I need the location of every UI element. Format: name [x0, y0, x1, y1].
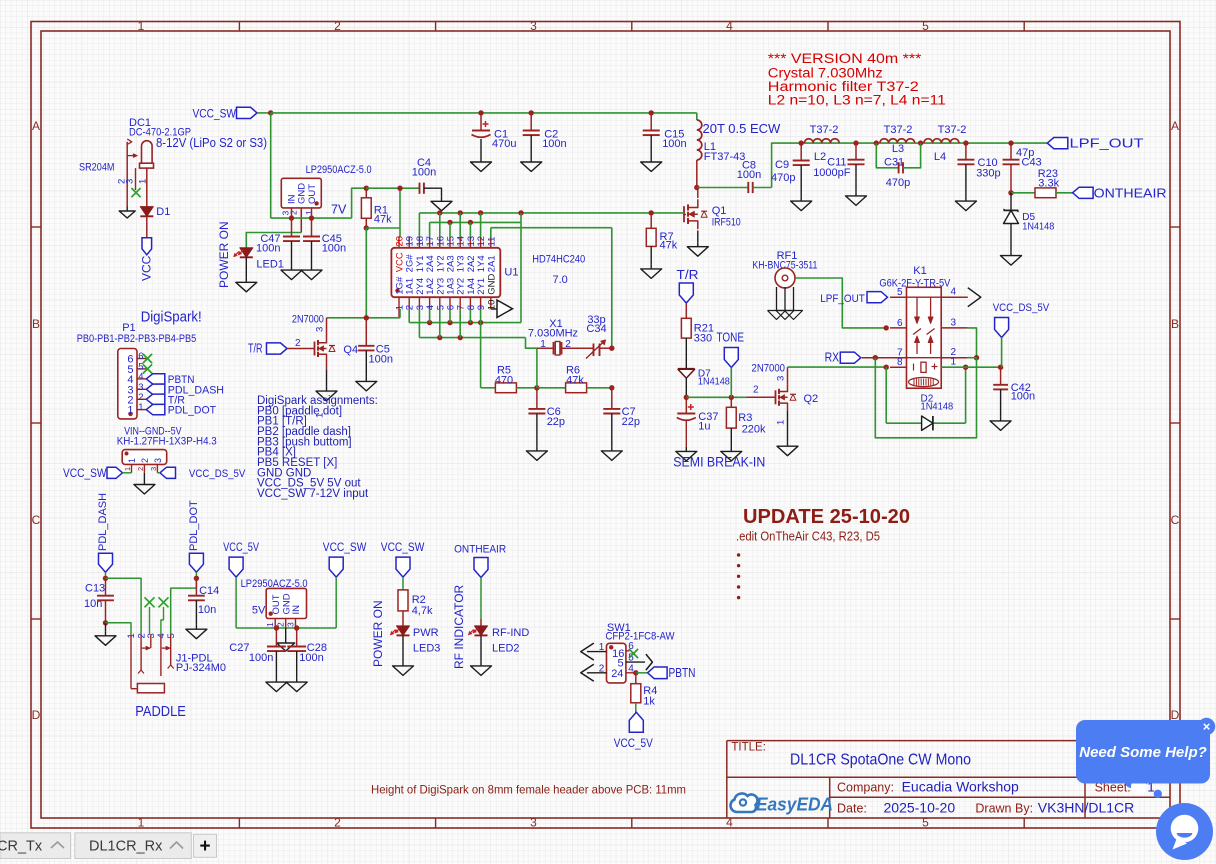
svg-text:1: 1 — [265, 622, 275, 627]
svg-text:RF INDICATOR: RF INDICATOR — [452, 584, 466, 669]
svg-text:100n: 100n — [737, 169, 761, 181]
svg-text:L4: L4 — [934, 151, 946, 163]
svg-text:Date:: Date: — [837, 802, 867, 816]
svg-text:K1: K1 — [913, 265, 926, 277]
svg-text:47k: 47k — [374, 213, 392, 225]
svg-text:2: 2 — [334, 19, 341, 33]
svg-text:6: 6 — [138, 351, 143, 362]
svg-text:LPF_OUT: LPF_OUT — [820, 293, 865, 305]
svg-text:EasyEDA: EasyEDA — [756, 794, 833, 815]
svg-text:1k: 1k — [643, 696, 655, 708]
svg-text:T37-2: T37-2 — [884, 124, 913, 136]
svg-text:DL1CR SpotaOne CW Mono: DL1CR SpotaOne CW Mono — [790, 752, 971, 769]
svg-text:2: 2 — [565, 339, 571, 350]
svg-text:PADDLE: PADDLE — [135, 704, 186, 720]
svg-text:7.0: 7.0 — [553, 274, 568, 286]
svg-text:C31: C31 — [884, 157, 904, 169]
svg-text:2A1: 2A1 — [486, 255, 497, 272]
svg-text:C9: C9 — [775, 159, 789, 171]
svg-text:100n: 100n — [256, 243, 280, 255]
svg-text:POWER ON: POWER ON — [217, 221, 231, 288]
svg-text:2N7000: 2N7000 — [292, 314, 324, 326]
svg-text:PDL_DASH: PDL_DASH — [97, 493, 109, 551]
svg-text:RX: RX — [825, 351, 840, 365]
svg-text:5: 5 — [922, 19, 929, 33]
svg-text:1: 1 — [304, 210, 314, 215]
svg-text:2: 2 — [289, 210, 299, 215]
svg-text:RF-IND: RF-IND — [492, 627, 529, 639]
svg-text:3: 3 — [530, 816, 537, 830]
svg-text:C: C — [1171, 513, 1180, 527]
svg-text:VCC: VCC — [140, 255, 154, 281]
svg-text:DigiSpark!: DigiSpark! — [141, 309, 202, 326]
svg-text:3: 3 — [776, 376, 787, 381]
svg-text:7.030MHz: 7.030MHz — [528, 328, 578, 340]
svg-text:CR_Tx: CR_Tx — [0, 839, 43, 855]
svg-text:L2 n=10, L3 n=7, L4 n=11: L2 n=10, L3 n=7, L4 n=11 — [768, 93, 946, 108]
svg-text:470p: 470p — [771, 172, 795, 184]
svg-text:3: 3 — [951, 317, 957, 328]
svg-text:3: 3 — [315, 327, 326, 332]
svg-text:100n: 100n — [542, 138, 566, 150]
svg-text:C13: C13 — [85, 583, 105, 595]
svg-text:SEMI BREAK-IN: SEMI BREAK-IN — [673, 455, 765, 470]
svg-text:CFP2-1FC8-AW: CFP2-1FC8-AW — [606, 631, 676, 643]
svg-text:330: 330 — [694, 332, 712, 344]
svg-text:3: 3 — [149, 467, 158, 471]
svg-text:D1: D1 — [156, 206, 170, 218]
svg-text:100n: 100n — [1011, 391, 1035, 403]
svg-text:VCC_SW: VCC_SW — [323, 542, 367, 554]
svg-text:VCC_SW 7-12V input: VCC_SW 7-12V input — [257, 488, 369, 500]
svg-text:100n: 100n — [369, 353, 393, 365]
svg-text:.edit OnTheAir C43, R23, D5: .edit OnTheAir C43, R23, D5 — [736, 530, 880, 544]
svg-text:8: 8 — [897, 357, 903, 368]
svg-text:330p: 330p — [976, 168, 1000, 180]
svg-text:TONE: TONE — [717, 331, 745, 345]
svg-text:PDL_DOT: PDL_DOT — [188, 500, 200, 551]
svg-text:VCC_SW: VCC_SW — [193, 109, 237, 121]
svg-text:3: 3 — [286, 622, 296, 627]
svg-text:ONTHEAIR: ONTHEAIR — [454, 544, 506, 556]
svg-text:22p: 22p — [622, 416, 640, 428]
svg-text:Height of DigiSpark on 8mm fem: Height of DigiSpark on 8mm female header… — [371, 783, 686, 797]
svg-text:FT37-43: FT37-43 — [704, 151, 746, 163]
svg-text:L3: L3 — [892, 143, 904, 155]
svg-text:A: A — [1171, 119, 1179, 133]
svg-text:GND: GND — [486, 273, 497, 294]
svg-text:C27: C27 — [229, 642, 249, 654]
svg-text:PJ-324M0: PJ-324M0 — [176, 662, 226, 674]
svg-text:ONTHEAIR: ONTHEAIR — [1094, 187, 1167, 201]
svg-text:B: B — [1171, 317, 1179, 331]
svg-text:1: 1 — [127, 405, 133, 417]
svg-text:L2: L2 — [814, 151, 826, 163]
svg-text:C34: C34 — [586, 323, 606, 335]
svg-text:1000pF: 1000pF — [813, 167, 851, 179]
svg-text:PDL_DOT: PDL_DOT — [168, 405, 216, 417]
svg-text:C: C — [32, 513, 41, 527]
svg-text:2: 2 — [753, 384, 759, 395]
svg-text:1: 1 — [540, 339, 546, 350]
svg-text:470p: 470p — [886, 177, 910, 189]
svg-text:24: 24 — [611, 668, 623, 680]
svg-text:OUT: OUT — [307, 184, 318, 204]
svg-text:DL1CR_Rx: DL1CR_Rx — [89, 839, 163, 855]
svg-text:1: 1 — [951, 357, 957, 368]
svg-text:220k: 220k — [742, 423, 766, 435]
svg-text:Company:: Company: — [837, 781, 894, 795]
svg-text:5: 5 — [897, 287, 903, 298]
svg-text:2: 2 — [136, 467, 145, 471]
svg-text:100n: 100n — [322, 243, 346, 255]
svg-text:100n: 100n — [412, 167, 436, 179]
svg-text:IRF510: IRF510 — [712, 216, 741, 228]
svg-text:D: D — [1171, 708, 1180, 722]
svg-text:1N4148: 1N4148 — [1022, 222, 1054, 233]
svg-text:LP2950ACZ-5.0: LP2950ACZ-5.0 — [306, 164, 372, 176]
svg-text:470: 470 — [495, 375, 513, 387]
svg-text:2: 2 — [334, 816, 341, 830]
svg-text:8-12V (LiPo S2 or S3): 8-12V (LiPo S2 or S3) — [156, 135, 267, 150]
svg-text:47k: 47k — [660, 240, 678, 252]
svg-text:2N7000: 2N7000 — [752, 363, 786, 375]
svg-text:1: 1 — [138, 816, 145, 830]
svg-text:HD74HC240: HD74HC240 — [532, 254, 585, 266]
svg-text:47k: 47k — [566, 375, 584, 387]
svg-text:UPDATE 25-10-20: UPDATE 25-10-20 — [743, 505, 910, 528]
svg-text:11: 11 — [486, 237, 497, 247]
svg-text:VK3HN/DL1CR: VK3HN/DL1CR — [1038, 800, 1134, 816]
svg-text:U1: U1 — [504, 267, 518, 279]
svg-text:SR204M: SR204M — [79, 162, 115, 174]
svg-text:POWER ON: POWER ON — [371, 600, 385, 667]
svg-text:2: 2 — [140, 458, 150, 463]
svg-text:IN: IN — [291, 605, 302, 615]
svg-text:R3: R3 — [738, 412, 752, 424]
svg-text:4: 4 — [726, 19, 733, 33]
svg-text:5: 5 — [922, 816, 929, 830]
svg-text:Drawn By:: Drawn By: — [975, 802, 1033, 816]
svg-text:LED2: LED2 — [492, 643, 520, 655]
svg-text:4: 4 — [951, 287, 957, 298]
svg-text:2025-10-20: 2025-10-20 — [884, 800, 956, 816]
svg-text:1: 1 — [138, 19, 145, 33]
svg-text:Need Some Help?: Need Some Help? — [1079, 744, 1207, 761]
svg-text:Q1: Q1 — [712, 205, 727, 217]
svg-text:*** VERSION 40m ***: *** VERSION 40m *** — [768, 51, 922, 66]
svg-text:100n: 100n — [249, 652, 273, 664]
svg-text:Q2: Q2 — [804, 393, 819, 405]
svg-text:VCC_5V: VCC_5V — [614, 738, 653, 750]
svg-text:LED1: LED1 — [256, 259, 284, 271]
svg-text:1: 1 — [776, 420, 787, 425]
svg-text:470u: 470u — [492, 138, 516, 150]
svg-text:5V: 5V — [252, 605, 266, 617]
svg-text:3: 3 — [530, 19, 537, 33]
svg-text:10n: 10n — [84, 598, 102, 610]
svg-text:C14: C14 — [199, 585, 219, 597]
svg-text:×: × — [1203, 719, 1211, 734]
svg-text:Q4: Q4 — [343, 344, 358, 356]
svg-text:VCC_SW: VCC_SW — [381, 542, 425, 554]
svg-text:6: 6 — [897, 318, 903, 329]
svg-text:PB0-PB1-PB2-PB3-PB4-PB5: PB0-PB1-PB2-PB3-PB4-PB5 — [77, 333, 197, 345]
svg-text:+: + — [199, 836, 210, 857]
svg-text:T37-2: T37-2 — [938, 124, 967, 136]
svg-text:3: 3 — [125, 179, 136, 184]
svg-text:T/R: T/R — [248, 342, 263, 356]
svg-text:VCC_DS_5V: VCC_DS_5V — [993, 302, 1050, 314]
svg-text:7V: 7V — [331, 203, 347, 217]
svg-text:100n: 100n — [299, 652, 323, 664]
svg-text:TITLE:: TITLE: — [731, 742, 766, 754]
svg-text:1: 1 — [123, 467, 132, 471]
svg-text:LPF_OUT: LPF_OUT — [1070, 137, 1144, 151]
svg-text:3: 3 — [153, 458, 163, 463]
svg-text:1N4148: 1N4148 — [921, 402, 954, 413]
svg-text:A: A — [32, 119, 40, 133]
svg-text:VCC_SW: VCC_SW — [63, 468, 107, 480]
svg-text:KH-1.27FH-1X3P-H4.3: KH-1.27FH-1X3P-H4.3 — [117, 436, 217, 448]
svg-text:C43: C43 — [1022, 157, 1042, 169]
svg-text:100n: 100n — [662, 138, 686, 150]
svg-text:1N4148: 1N4148 — [698, 376, 730, 387]
svg-text:T/R: T/R — [677, 268, 699, 282]
svg-text:T37-2: T37-2 — [810, 124, 839, 136]
svg-text:VCC_DS_5V: VCC_DS_5V — [189, 468, 246, 480]
svg-text:1: 1 — [137, 179, 148, 184]
svg-text:1: 1 — [127, 458, 137, 463]
svg-text:PWR: PWR — [413, 627, 439, 639]
svg-text:OUT: OUT — [271, 594, 282, 614]
svg-text:D: D — [32, 708, 41, 722]
svg-text:2: 2 — [295, 338, 301, 349]
svg-text:20T 0.5 ECW: 20T 0.5 ECW — [703, 121, 782, 136]
svg-text:VCC_5V: VCC_5V — [223, 542, 259, 554]
svg-text:Eucadia Workshop: Eucadia Workshop — [902, 779, 1019, 795]
svg-text:4,7k: 4,7k — [412, 605, 433, 617]
svg-text:1: 1 — [138, 402, 143, 413]
svg-text:1u: 1u — [698, 421, 710, 433]
svg-text:LED3: LED3 — [413, 643, 441, 655]
svg-text:22p: 22p — [547, 416, 565, 428]
svg-text:PBTN: PBTN — [669, 666, 696, 680]
svg-text:3.3k: 3.3k — [1038, 178, 1059, 190]
svg-text:B: B — [32, 317, 40, 331]
svg-text:10n: 10n — [198, 604, 216, 616]
